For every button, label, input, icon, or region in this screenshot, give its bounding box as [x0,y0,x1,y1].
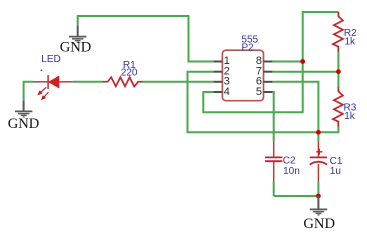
svg-text:GND: GND [60,40,92,56]
svg-text:4: 4 [224,86,230,98]
svg-text:1k: 1k [344,111,356,122]
svg-text:220: 220 [121,68,138,79]
svg-text:10n: 10n [283,166,300,177]
svg-text:GND: GND [8,116,40,132]
svg-text:LED: LED [41,54,60,65]
svg-text:GND: GND [303,216,335,232]
svg-text:P2: P2 [242,43,255,54]
svg-text:5: 5 [256,86,262,98]
svg-text:1k: 1k [345,37,357,48]
svg-text:1u: 1u [330,166,341,177]
